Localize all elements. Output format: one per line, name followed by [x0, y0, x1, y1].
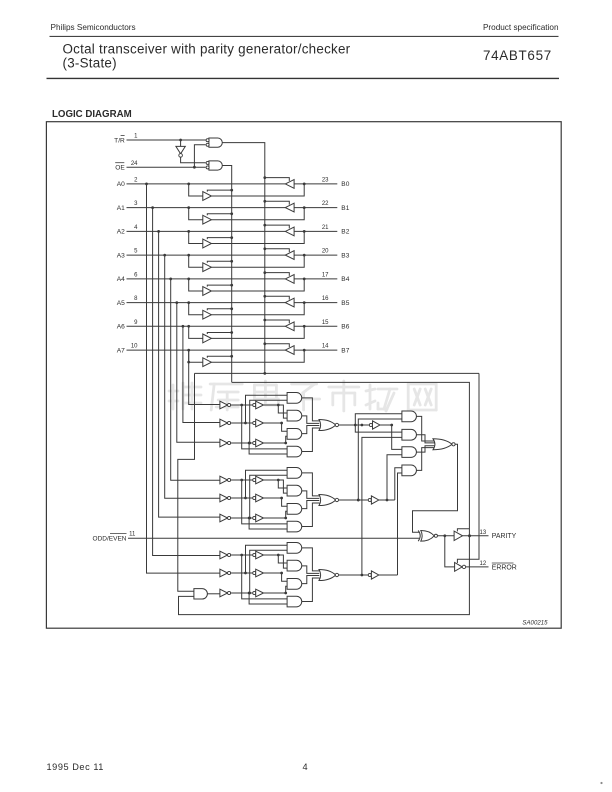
svg-text:SA00215: SA00215: [522, 620, 548, 627]
buffer S2: [368, 496, 379, 504]
buffer P2B3: [253, 514, 264, 522]
node A6 parity tap: [182, 325, 185, 328]
AND gate P1A1: [287, 393, 302, 404]
svg-text:ERROR: ERROR: [492, 564, 517, 571]
wire enable tap B-to-A channel 2: [263, 224, 289, 229]
wire enable tap B-to-A channel 4: [263, 271, 289, 276]
output B5 pin 16: [322, 296, 350, 307]
svg-text:15: 15: [322, 320, 329, 326]
node A0 buffer tap: [187, 183, 190, 186]
wire enable tap B-to-A channel 5: [263, 295, 289, 300]
wire net EN-AB horizontal L2: [179, 382, 471, 614]
wire B5 line: [294, 301, 337, 304]
wire A4 line: [127, 278, 286, 280]
input A1 pin 3: [117, 201, 138, 212]
input A4 pin 6: [117, 273, 138, 284]
NOR gate P1G: [319, 419, 339, 430]
svg-text:13: 13: [480, 530, 487, 536]
svg-text:21: 21: [322, 225, 329, 231]
header top rule: [50, 35, 559, 37]
wire A5 line: [127, 302, 286, 304]
wire parity bus A7: [187, 350, 220, 404]
3-state buffer B1 to A1: [285, 203, 294, 212]
3-state buffer B3 to A3: [285, 251, 294, 260]
wire XG output: [438, 534, 455, 537]
wire B4 line: [294, 278, 337, 281]
wire parity bus A2: [159, 231, 220, 517]
svg-text:23: 23: [322, 178, 329, 184]
AND gate P2A3: [287, 504, 302, 515]
wire P1 row2 to buffer: [230, 422, 253, 424]
inverter P3N2: [220, 569, 231, 577]
input A7 pin 10: [117, 344, 138, 355]
inverter P2N3: [220, 514, 231, 522]
wire P1 output: [339, 424, 370, 427]
wire A0 drop to A-to-B buffer: [189, 184, 203, 196]
AND gate U2 (A-to-B enable, NOR-style inputs): [206, 161, 222, 170]
buffer P1B2: [253, 419, 264, 427]
inverter P1N1: [220, 401, 231, 409]
wire P3 AND outputs to NOR: [302, 548, 320, 602]
wire B3 line: [294, 254, 337, 257]
input A5 pin 8: [117, 296, 138, 307]
AND gate P3A4: [287, 596, 302, 607]
inverter P3N3: [220, 589, 231, 597]
wire P2 row2 to buffer: [230, 497, 253, 499]
svg-text:B7: B7: [341, 347, 349, 354]
wire enable tap A-to-B channel 6: [207, 331, 233, 334]
wire parity bus A6: [183, 326, 220, 422]
svg-text:B4: B4: [341, 276, 349, 283]
XNOR gate XG: [418, 530, 437, 541]
AND gate S-A4: [402, 465, 417, 476]
svg-text:Octal transceiver with parity: Octal transceiver with parity generator/…: [63, 41, 351, 56]
output B1 pin 22: [322, 201, 350, 212]
3-state buffer B5 to A5: [285, 298, 294, 307]
wire inverter output to lower AND gate: [181, 157, 206, 163]
buffer S1: [369, 421, 380, 429]
wire A1 line: [127, 207, 286, 209]
wire A6 drop to A-to-B buffer: [189, 326, 203, 338]
watermark band: [169, 381, 436, 411]
AND gate S-A1: [402, 411, 417, 422]
3-state buffer A2 to B2: [203, 239, 212, 248]
wire T/R down to inverter: [180, 140, 182, 146]
wire A4 drop to A-to-B buffer: [189, 279, 203, 291]
wire S-AND outputs to SG: [417, 416, 435, 470]
wire net EN-BA to lower AND of cluster 3: [178, 373, 195, 591]
node A3 parity tap: [163, 254, 166, 257]
inverter P2N1: [220, 476, 231, 484]
wire enable tap A-to-B channel 1: [207, 212, 233, 215]
wire P1 row3 to buffer: [230, 442, 253, 444]
svg-text:ODD/EVEN: ODD/EVEN: [93, 536, 127, 543]
svg-text:10: 10: [131, 344, 138, 350]
svg-text:12: 12: [480, 561, 487, 567]
AND gate S-A2: [402, 429, 417, 440]
3-state buffer B4 to A4: [285, 275, 294, 284]
svg-text:B1: B1: [341, 205, 349, 212]
AND gate P1A2: [287, 410, 302, 421]
inverter P3N1: [220, 551, 231, 559]
heading LOGIC DIAGRAM: [52, 109, 132, 120]
input A0 pin 2: [117, 178, 138, 189]
wire A-to-B buffer 5 output to B line: [211, 303, 304, 315]
3-state buffer B6 to A6: [285, 322, 294, 331]
wire SG output to XNOR: [413, 444, 458, 532]
svg-text:16: 16: [322, 296, 329, 302]
wire enable tap A-to-B channel 0: [207, 189, 233, 192]
wire enable tap A-to-B channel 7: [207, 355, 233, 358]
svg-text:20: 20: [322, 249, 329, 255]
wire B1 line: [294, 206, 337, 209]
node A5 buffer tap: [187, 301, 190, 304]
svg-text:A0: A0: [117, 181, 125, 188]
wire parity bus A5: [177, 303, 220, 443]
wire P2 mesh AND4 feeds: [240, 479, 287, 529]
svg-text:4: 4: [303, 762, 308, 772]
wire A-to-B buffer 0 output to B line: [211, 184, 304, 196]
input A6 pin 9: [117, 320, 138, 331]
svg-text:PARITY: PARITY: [492, 533, 517, 540]
part number 74ABT657: [483, 48, 552, 63]
svg-text:B6: B6: [341, 324, 349, 331]
wire enable tap B-to-A channel 3: [263, 247, 289, 252]
wire S-A2 inputs: [355, 424, 402, 577]
svg-text:A4: A4: [117, 276, 125, 283]
buffer ERROR driver: [455, 563, 466, 572]
wire A-to-B buffer 7 output to B line: [211, 350, 304, 362]
svg-text:1995 Dec 11: 1995 Dec 11: [47, 762, 104, 772]
wire P1 mesh top feeds: [244, 395, 287, 444]
header: Product specification: [483, 23, 559, 32]
node A1 parity tap: [151, 206, 154, 209]
svg-text:A7: A7: [117, 347, 125, 354]
svg-text:T/R: T/R: [114, 137, 125, 144]
AND gate P1A4: [287, 446, 302, 457]
wire parity bus A1: [153, 208, 220, 556]
input A3 pin 5: [117, 249, 138, 260]
wire S1 output: [380, 424, 393, 427]
wire S-A3 inputs: [387, 425, 402, 500]
3-state buffer A4 to B4: [203, 287, 212, 296]
NOR gate P3G: [319, 569, 339, 580]
AND gate P3A0 (enable qualifier): [194, 589, 208, 599]
wire U2 output to enable rail EN-AB: [222, 166, 231, 383]
diagram border box: [46, 122, 561, 629]
AND gate P2A4: [287, 521, 302, 532]
AND gate P3A2: [287, 560, 302, 571]
node A5 parity tap: [175, 301, 178, 304]
wire enable tap B-to-A channel 0: [263, 176, 289, 181]
AND gate P2A1: [287, 468, 302, 479]
wire parity bus A0: [147, 184, 220, 573]
buffer P2B2: [253, 494, 264, 502]
wire B7 line: [294, 349, 337, 352]
wire P1 mesh AND4 feeds: [240, 404, 287, 454]
wire A3 drop to A-to-B buffer: [189, 255, 203, 267]
svg-text:LOGIC DIAGRAM: LOGIC DIAGRAM: [52, 109, 132, 120]
wire OE branch up to top AND gate: [194, 145, 205, 167]
svg-text:B0: B0: [341, 181, 349, 188]
wire P1 row1 to buffer: [230, 404, 253, 406]
scan speck: [600, 782, 602, 784]
node A6 buffer tap: [187, 325, 190, 328]
buffer P2B1: [253, 476, 264, 484]
AND gate U1 (B-to-A enable, NOR-style inputs): [206, 138, 222, 147]
wire P3 row2 to buffer: [230, 572, 253, 574]
wire P3 row3 to buffer: [230, 592, 253, 594]
wire enable tap A-to-B channel 4: [207, 284, 233, 287]
3-state buffer B2 to A2: [285, 227, 294, 236]
wire B6 line: [294, 325, 337, 328]
node A2 buffer tap: [187, 230, 190, 233]
wire P2 mesh top feeds: [244, 470, 287, 519]
input T/R pin 1: [114, 134, 138, 145]
3-state buffer A5 to B5: [203, 310, 212, 319]
wire enable tap B-to-A channel 6: [263, 319, 289, 324]
wire enable tap A-to-B channel 2: [207, 236, 233, 239]
svg-text:24: 24: [131, 161, 138, 167]
wire A3 line: [127, 254, 286, 256]
footer page number: [303, 762, 308, 772]
wire A-to-B buffer 4 output to B line: [211, 279, 304, 291]
output ERROR pin 12: [466, 561, 517, 571]
wire A6 line: [127, 325, 286, 327]
wire net EN-BA horizontal L1: [195, 372, 480, 375]
3-state buffer A3 to B3: [203, 263, 212, 272]
node T/R inverter tap: [179, 139, 182, 142]
wire enable tap A-to-B channel 3: [207, 260, 233, 263]
svg-text:B5: B5: [341, 300, 349, 307]
wire P2 row1 to buffer: [230, 479, 253, 481]
inverter P1N3: [220, 439, 231, 447]
wire parity bus A3: [165, 255, 220, 498]
node A3 buffer tap: [187, 254, 190, 257]
svg-text:11: 11: [129, 532, 136, 538]
output B0 pin 23: [322, 178, 350, 189]
output B7 pin 14: [322, 344, 350, 355]
wire A0 line: [127, 183, 286, 185]
output PARITY pin 13: [463, 530, 517, 540]
AND gate P3A3: [287, 579, 302, 590]
wire B2 line: [294, 230, 337, 233]
buffer P3B3: [253, 589, 264, 597]
wire B0 line: [294, 183, 337, 186]
wire enable tap B-to-A channel 7: [263, 342, 289, 347]
wire S2 output: [379, 499, 395, 502]
wire S3 output: [379, 574, 398, 576]
wire A5 drop to A-to-B buffer: [189, 303, 203, 315]
input OE pin 24: [115, 161, 138, 172]
inverter on T/R (down): [176, 146, 185, 157]
wire A-to-B buffer 1 output to B line: [211, 208, 304, 220]
NOR gate SG: [433, 439, 455, 450]
svg-text:A1: A1: [117, 205, 125, 212]
wire P3 mesh AND4 feeds: [240, 554, 287, 604]
output B3 pin 20: [322, 249, 350, 260]
node A4 parity tap: [169, 278, 172, 281]
wire T/R to gate: [127, 139, 207, 141]
svg-text:22: 22: [322, 201, 329, 207]
3-state buffer A0 to B0: [203, 192, 212, 201]
NOR gate P2G: [319, 494, 339, 505]
svg-text:74ABT657: 74ABT657: [483, 48, 552, 63]
3-state buffer A6 to B6: [203, 334, 212, 343]
node A1 buffer tap: [187, 206, 190, 209]
3-state buffer A7 to B7: [203, 358, 212, 367]
wire A-to-B buffer 3 output to B line: [211, 255, 304, 267]
wire A7 line: [127, 349, 286, 351]
svg-text:14: 14: [322, 344, 329, 350]
svg-text:OE: OE: [115, 165, 125, 172]
3-state buffer B0 to A0: [285, 180, 294, 189]
AND gate P2A2: [287, 485, 302, 496]
title: Octal transceiver with parity generator/checker: [63, 41, 351, 70]
node A7 buffer tap: [187, 349, 190, 352]
svg-text:(3-State): (3-State): [63, 56, 117, 71]
wire P3 row1 to buffer: [230, 554, 253, 556]
wire A7 drop to A-to-B buffer: [189, 350, 203, 362]
wire P1 mesh AND3 feeds: [264, 422, 288, 445]
svg-text:Product specification: Product specification: [483, 23, 559, 32]
output B2 pin 21: [322, 225, 350, 236]
buffer P3B2: [253, 569, 264, 577]
svg-text:17: 17: [322, 273, 329, 279]
wire enable tap B-to-A channel 1: [263, 200, 289, 205]
wire P2 row3 to buffer: [230, 517, 253, 519]
svg-text:A6: A6: [117, 324, 125, 331]
wire S-A4 inputs: [395, 468, 402, 575]
wire P2 mesh AND2 feeds: [264, 479, 288, 494]
wire A2 line: [127, 230, 286, 232]
header: Philips Semiconductors: [51, 23, 136, 32]
wire A2 drop to A-to-B buffer: [189, 231, 203, 243]
wire A1 drop to A-to-B buffer: [189, 208, 203, 220]
wire P1 AND outputs to NOR: [302, 398, 320, 452]
wire P1 mesh AND2 feeds: [264, 404, 288, 419]
wire A-to-B buffer 2 output to B line: [211, 231, 304, 243]
wire PARITY driver enable: [457, 529, 469, 532]
wire P3 mesh top feeds: [244, 545, 287, 594]
label SA00215: [522, 620, 548, 627]
AND gate P3A1: [287, 543, 302, 554]
3-state buffer B7 to A7: [285, 346, 294, 355]
wire parity bus A4: [171, 279, 220, 480]
wire ODD/EVEN line: [128, 537, 419, 539]
buffer PARITY driver: [454, 531, 462, 540]
svg-text:B3: B3: [341, 252, 349, 259]
AND gate S-A3: [402, 447, 417, 458]
input ODD/EVEN pin 11: [93, 532, 137, 543]
svg-text:A3: A3: [117, 252, 125, 259]
node A4 buffer tap: [187, 278, 190, 281]
input A2 pin 4: [117, 225, 138, 236]
wire A-to-B buffer 6 output to B line: [211, 326, 304, 338]
wire S-A1 inputs: [355, 414, 402, 502]
wire U1 output to enable rail EN-BA: [222, 143, 264, 373]
3-state buffer A1 to B1: [203, 215, 212, 224]
wire P2 mesh AND3 feeds: [264, 497, 288, 520]
inverter P1N2: [220, 419, 231, 427]
node A0 parity tap: [145, 183, 148, 186]
output B6 pin 15: [322, 320, 350, 331]
wire P2 AND outputs to NOR: [302, 473, 320, 527]
output B4 pin 17: [322, 273, 350, 284]
wire P2 output: [339, 499, 369, 502]
header bottom rule: [47, 77, 560, 79]
wire net EN-BA to ERROR gate enable: [457, 373, 479, 563]
svg-text:A5: A5: [117, 300, 125, 307]
buffer P1B3: [253, 439, 264, 447]
wire OE to gates: [127, 166, 206, 168]
svg-text:A2: A2: [117, 229, 125, 236]
wire P3 mesh AND2 feeds: [264, 554, 288, 569]
buffer P1B1: [253, 401, 264, 409]
svg-text:B2: B2: [341, 229, 349, 236]
AND gate P1A3: [287, 429, 302, 440]
buffer S3: [368, 571, 379, 579]
inverter P2N2: [220, 494, 231, 502]
wire to ERROR driver: [445, 536, 455, 567]
node OE branch: [193, 166, 196, 169]
wire enable tap A-to-B channel 5: [207, 307, 233, 310]
node A2 parity tap: [157, 230, 160, 233]
wire P3A0 output to inverter P3N3: [207, 593, 220, 595]
wire P3 output: [339, 574, 369, 576]
svg-text:Philips Semiconductors: Philips Semiconductors: [51, 23, 136, 32]
footer date: [47, 762, 104, 772]
wire P3 mesh AND3 feeds: [264, 572, 288, 595]
buffer P3B1: [253, 551, 264, 559]
